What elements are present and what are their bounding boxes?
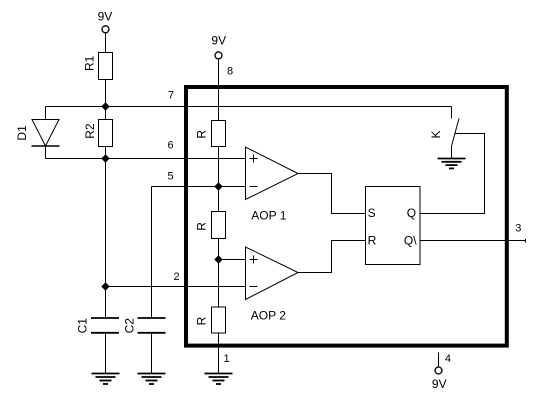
capacitor C2 <box>138 318 166 333</box>
wire node A to R2 <box>105 107 107 120</box>
ground (switch K) <box>438 159 466 169</box>
resistor R (divider middle) <box>212 212 226 239</box>
svg-text:K: K <box>429 130 443 138</box>
svg-text:1: 1 <box>224 353 230 365</box>
ground (pin 1) <box>205 374 233 385</box>
svg-text:9V: 9V <box>211 34 226 48</box>
node C junction <box>102 283 109 290</box>
wire pin 7 horizontal (D1 top / node A / into box to switch) <box>46 106 452 108</box>
svg-text:R: R <box>368 234 377 248</box>
ground (C1) <box>92 374 120 385</box>
wire Q\ output to pin 3 <box>420 240 526 242</box>
svg-text:Q: Q <box>407 206 416 220</box>
svg-text:3: 3 <box>515 223 521 235</box>
svg-text:5: 5 <box>168 171 174 183</box>
wire pin 4 <box>438 353 440 368</box>
wire pin 6 horizontal to AOP1 + <box>106 158 246 160</box>
capacitor C1 <box>91 318 119 333</box>
svg-text:S: S <box>368 206 376 220</box>
resistor R (divider top) <box>212 121 226 147</box>
wire pin 5 vertical down to C2 <box>151 187 153 319</box>
wire AOP1 output to S <box>298 174 366 214</box>
wire D1 bottom to node B <box>46 158 106 160</box>
wire left rail node B to C1 <box>105 159 107 319</box>
svg-text:9V: 9V <box>98 10 113 24</box>
svg-text:Q\: Q\ <box>404 234 417 248</box>
wire pin 1 to ground <box>218 333 220 374</box>
node A junction <box>102 103 109 110</box>
wire R2 to node B <box>105 147 107 159</box>
svg-text:7: 7 <box>168 90 174 102</box>
svg-text:4: 4 <box>445 353 451 365</box>
svg-text:R: R <box>195 316 209 325</box>
svg-text:R2: R2 <box>83 123 97 139</box>
svg-text:AOP 2: AOP 2 <box>251 309 286 323</box>
wire pin 8 vertical into box to divider <box>218 59 220 121</box>
diode D1 <box>32 107 60 159</box>
power terminal 9V pin 8 <box>215 52 222 59</box>
svg-text:2: 2 <box>174 271 180 283</box>
svg-text:R1: R1 <box>82 55 96 71</box>
resistor R1 <box>99 53 113 80</box>
wire AOP2 output to R <box>298 241 366 273</box>
switch K <box>452 107 460 159</box>
svg-text:AOP 1: AOP 1 <box>251 208 286 222</box>
pin 3 end tick <box>525 239 527 243</box>
svg-text:9V: 9V <box>432 377 447 391</box>
wire C2 to ground <box>151 333 153 374</box>
wire terminal to R1 <box>105 33 107 53</box>
svg-text:D1: D1 <box>15 125 29 141</box>
svg-text:R: R <box>195 222 209 231</box>
power terminal 9V top-left <box>102 26 109 33</box>
wire pin 2 horizontal to AOP2 - <box>106 286 246 288</box>
svg-text:8: 8 <box>227 66 233 78</box>
ground (C2) <box>138 374 166 385</box>
wire divider top to node D <box>218 147 220 213</box>
svg-text:C2: C2 <box>123 318 137 334</box>
node B junction <box>102 155 109 162</box>
IC 555 outline box <box>186 87 507 346</box>
wire divider middle to node E <box>218 239 220 308</box>
wire Q output to switch <box>420 134 485 214</box>
wire pin 5 horizontal <box>152 186 246 188</box>
op-amp AOP2 <box>246 247 299 300</box>
svg-text:6: 6 <box>168 140 174 152</box>
svg-text:C1: C1 <box>76 318 90 334</box>
node D junction (divider to AOP1 -) <box>215 183 222 190</box>
resistor R2 <box>99 120 113 147</box>
resistor R (divider bottom) <box>212 307 226 333</box>
op-amp AOP1 <box>246 147 299 200</box>
wire R1 to node A <box>105 80 107 107</box>
wire C1 to ground <box>105 333 107 374</box>
flip-flop U1 <box>366 187 421 265</box>
power terminal 9V pin 4 <box>435 367 442 374</box>
svg-text:R: R <box>195 130 209 139</box>
wire node E to AOP2 + <box>219 259 246 261</box>
node E junction (divider to AOP2 +) <box>215 256 222 263</box>
